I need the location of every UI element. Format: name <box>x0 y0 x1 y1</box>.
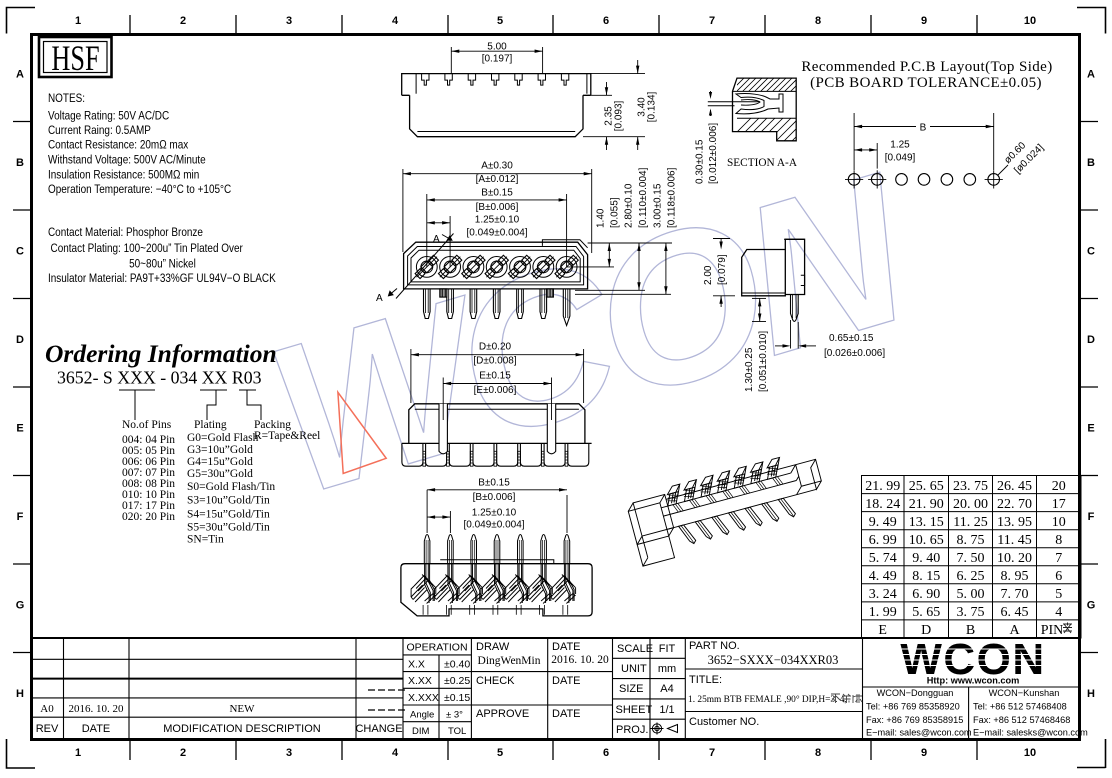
svg-text:S0=Gold Flash/Tin: S0=Gold Flash/Tin <box>187 481 275 493</box>
inner walls <box>408 247 584 285</box>
svg-text:4: 4 <box>1055 605 1062 620</box>
svg-text:9. 49: 9. 49 <box>869 515 897 530</box>
svg-text:2016. 10. 20: 2016. 10. 20 <box>551 654 609 666</box>
svg-text:±0.15: ±0.15 <box>444 692 470 704</box>
svg-text:D: D <box>16 334 24 346</box>
svg-text:Fax: +86 769 85358915: Fax: +86 769 85358915 <box>866 715 963 725</box>
svg-text:6. 99: 6. 99 <box>869 533 897 548</box>
hatch top band <box>730 78 804 92</box>
svg-text:[0.012±0.006]: [0.012±0.006] <box>708 123 719 184</box>
svg-text:Fax: +86 512 57468468: Fax: +86 512 57468468 <box>973 715 1070 725</box>
svg-text:[0.049±0.004]: [0.049±0.004] <box>463 520 524 531</box>
svg-text:6. 90: 6. 90 <box>912 587 940 602</box>
svg-text:1.30±0.25: 1.30±0.25 <box>744 347 755 392</box>
svg-text:E±0.15: E±0.15 <box>479 371 511 382</box>
svg-text:5.00: 5.00 <box>487 42 507 53</box>
svg-text:5. 74: 5. 74 <box>869 551 897 566</box>
svg-text:DATE: DATE <box>82 723 111 735</box>
svg-text:B±0.15: B±0.15 <box>478 478 510 489</box>
svg-text:2: 2 <box>180 747 186 759</box>
svg-text:E−mail: sales@wcon.com: E−mail: sales@wcon.com <box>866 728 972 738</box>
svg-text:8. 75: 8. 75 <box>957 533 985 548</box>
svg-text:PART NO.: PART NO. <box>689 640 740 652</box>
dim 0.30 arrows <box>709 91 712 116</box>
dim A <box>403 169 592 253</box>
svg-text:S3=10u”Gold/Tin: S3=10u”Gold/Tin <box>187 495 270 507</box>
svg-text:7. 70: 7. 70 <box>1001 587 1029 602</box>
svg-text:±0.25: ±0.25 <box>444 675 470 687</box>
svg-text:8. 95: 8. 95 <box>1001 569 1029 584</box>
svg-text:[0.134]: [0.134] <box>647 91 658 122</box>
svg-text:23. 75: 23. 75 <box>953 479 988 494</box>
svg-text:8: 8 <box>1055 533 1062 548</box>
svg-text:F: F <box>1088 511 1095 523</box>
svg-text:DATE: DATE <box>552 641 581 653</box>
svg-text:SN=Tin: SN=Tin <box>187 534 224 546</box>
dim 2.00 <box>713 239 735 308</box>
svg-text:8: 8 <box>815 15 821 27</box>
svg-text:B: B <box>16 157 24 169</box>
svg-text:Voltage Rating: 50V AC/DC: Voltage Rating: 50V AC/DC <box>48 110 169 123</box>
svg-text:Contact Material: Phosphor: Contact Material: Phosphor Bronze <box>48 226 203 239</box>
svg-text:SIZE: SIZE <box>619 683 643 695</box>
svg-text:[0.049±0.004]: [0.049±0.004] <box>466 228 527 239</box>
svg-text:Contact Plating: 100~200u”: Contact Plating: 100~200u” Tin Plated Ov… <box>51 242 244 255</box>
svg-text:1: 1 <box>75 747 81 759</box>
svg-text:A: A <box>433 234 440 245</box>
top band outline <box>402 74 591 96</box>
revision table <box>32 638 1081 739</box>
svg-text:3652- S XXX - 034 XX R03: 3652- S XXX - 034 XX R03 <box>57 368 262 388</box>
svg-text:[0.093]: [0.093] <box>614 100 625 131</box>
operation tolerance table <box>438 655 440 738</box>
svg-text:A4: A4 <box>660 683 673 695</box>
svg-text:22. 70: 22. 70 <box>997 497 1032 512</box>
svg-text:H: H <box>1087 688 1095 700</box>
svg-text:S4=15u”Gold/Tin: S4=15u”Gold/Tin <box>187 509 270 521</box>
svg-text:1.25±0.10: 1.25±0.10 <box>472 507 517 518</box>
svg-text:[A±0.012]: [A±0.012] <box>476 174 519 185</box>
svg-text:7: 7 <box>709 15 715 27</box>
svg-text:10: 10 <box>1052 515 1066 530</box>
bottom tabs row <box>402 443 589 466</box>
svg-text:G: G <box>1087 600 1096 612</box>
svg-text:[E±0.006]: [E±0.006] <box>474 385 517 396</box>
svg-text:D±0.20: D±0.20 <box>479 342 512 353</box>
svg-text:S5=30u”Gold/Tin: S5=30u”Gold/Tin <box>187 521 270 533</box>
wcon addresses <box>866 688 1088 738</box>
dim E <box>443 378 551 421</box>
svg-text:mm: mm <box>658 663 676 675</box>
revision table texts <box>36 723 403 735</box>
svg-text:E−mail: salesks@wcon.com: E−mail: salesks@wcon.com <box>973 728 1088 738</box>
zone numbers top <box>75 15 1036 27</box>
svg-text:B: B <box>1087 157 1095 169</box>
svg-text:[0.049]: [0.049] <box>885 153 916 164</box>
top lip step <box>542 240 587 248</box>
section line A-A <box>396 234 454 299</box>
svg-text:13. 15: 13. 15 <box>909 515 944 530</box>
svg-text:Insulation Resistance: 500MΩ: Insulation Resistance: 500MΩ min <box>48 169 199 182</box>
dim 0.65 <box>775 320 816 349</box>
body <box>409 404 585 444</box>
operation table texts <box>406 642 470 738</box>
svg-text:WCON−Kunshan: WCON−Kunshan <box>989 688 1060 698</box>
svg-text:10. 20: 10. 20 <box>997 551 1032 566</box>
right-side dims 1.40 / 2.80 / 3.00 <box>567 243 672 294</box>
svg-text:1.40: 1.40 <box>596 208 607 228</box>
plating callout bracket <box>200 390 227 420</box>
svg-text:R=Tape&Reel: R=Tape&Reel <box>254 430 320 442</box>
svg-text:Customer NO.: Customer NO. <box>689 716 759 728</box>
svg-text:0.30±0.15: 0.30±0.15 <box>695 139 706 184</box>
change dashes <box>368 690 405 710</box>
dim 5.00 <box>451 47 542 73</box>
svg-text:7. 50: 7. 50 <box>957 551 985 566</box>
svg-text:[0.197]: [0.197] <box>482 54 513 65</box>
body <box>401 564 592 616</box>
svg-text:E: E <box>878 623 887 638</box>
svg-text:6: 6 <box>1055 569 1062 584</box>
svg-text:TOL: TOL <box>448 726 466 737</box>
part no / title / customer <box>862 638 864 739</box>
svg-text:10. 65: 10. 65 <box>909 533 944 548</box>
z-contacts <box>411 564 576 615</box>
svg-text:25. 65: 25. 65 <box>909 479 944 494</box>
svg-text:7: 7 <box>1055 551 1062 566</box>
svg-text:(PCB BOARD TOLERANCE±0.05): (PCB BOARD TOLERANCE±0.05) <box>810 75 1042 91</box>
svg-text:A±0.30: A±0.30 <box>481 161 513 172</box>
svg-text:0.65±0.15: 0.65±0.15 <box>829 333 874 344</box>
svg-text:10: 10 <box>1024 747 1036 759</box>
svg-text:G5=30u”Gold: G5=30u”Gold <box>187 468 253 480</box>
svg-text:[0.118±0.006]: [0.118±0.006] <box>667 167 678 228</box>
svg-text:21. 90: 21. 90 <box>909 497 944 512</box>
body <box>742 250 786 296</box>
svg-text:1. 99: 1. 99 <box>869 605 897 620</box>
left ticks <box>13 122 31 653</box>
svg-text:2016. 10. 20: 2016. 10. 20 <box>69 703 125 715</box>
svg-text:Insulator Material: PA9T+33%: Insulator Material: PA9T+33%GF UL94V−O B… <box>48 272 276 285</box>
draw/check/approve <box>476 641 581 720</box>
svg-text:2: 2 <box>180 15 186 27</box>
svg-text:3652−SXXX−034XXR03: 3652−SXXX−034XXR03 <box>708 653 839 667</box>
svg-text:G4=15u”Gold: G4=15u”Gold <box>187 456 253 468</box>
svg-text:[D±0.008]: [D±0.008] <box>473 356 517 367</box>
svg-text:TITLE:: TITLE: <box>689 674 722 686</box>
svg-text:11. 25: 11. 25 <box>953 515 987 530</box>
crosshairs on 1,2,7 <box>845 170 1003 188</box>
svg-text:5: 5 <box>497 15 503 27</box>
svg-text:17: 17 <box>1052 497 1066 512</box>
svg-text:G: G <box>16 600 25 612</box>
svg-text:6. 25: 6. 25 <box>957 569 985 584</box>
svg-text:X.X: X.X <box>408 659 425 671</box>
dim 1.25 <box>854 143 877 169</box>
svg-text:10: 10 <box>1024 15 1036 27</box>
svg-text:X.XXX: X.XXX <box>408 692 439 704</box>
band inner verticals <box>415 74 417 94</box>
dim B <box>427 488 567 533</box>
svg-text:5: 5 <box>1055 587 1062 602</box>
dim B <box>427 194 567 267</box>
svg-text:Current Raing: 0.5AMP: Current Raing: 0.5AMP <box>48 124 151 137</box>
mating pin entering left <box>708 101 760 103</box>
svg-text:E: E <box>1087 423 1094 435</box>
contacts: 7 circles with diagonal chip chains <box>416 257 577 278</box>
bottom ticks <box>130 741 977 760</box>
pin <box>791 295 799 322</box>
svg-text:A: A <box>16 69 24 81</box>
svg-text:21. 99: 21. 99 <box>865 479 900 494</box>
svg-text:26. 45: 26. 45 <box>997 479 1032 494</box>
svg-text:9: 9 <box>921 747 927 759</box>
svg-text:2.00: 2.00 <box>703 265 714 285</box>
dim 2.35 / 3.40 <box>583 60 645 150</box>
outline <box>733 78 797 141</box>
svg-text:B: B <box>920 123 927 134</box>
svg-text:[0.110±0.004]: [0.110±0.004] <box>638 167 649 228</box>
svg-text:Operation Temperature: −40°C: Operation Temperature: −40°C to +105°C <box>48 183 231 196</box>
svg-text:REV: REV <box>36 723 59 735</box>
svg-text:3: 3 <box>286 15 292 27</box>
packing callout bracket <box>239 390 261 420</box>
svg-text:FIT: FIT <box>659 643 676 655</box>
scale/unit/size/sheet/proj <box>649 638 651 739</box>
svg-text:50~80u” Nickel: 50~80u” Nickel <box>129 258 196 271</box>
svg-text:20. 00: 20. 00 <box>953 497 988 512</box>
dim 1.25 <box>427 216 450 267</box>
svg-text:[B±0.006]: [B±0.006] <box>473 492 516 503</box>
hatch bottom band <box>728 117 816 141</box>
projection symbol <box>651 723 678 735</box>
dim 1.25 <box>427 511 450 533</box>
svg-text:SHEET: SHEET <box>616 704 653 716</box>
svg-text:DingWenMin: DingWenMin <box>478 655 541 667</box>
svg-text:UNIT: UNIT <box>621 663 647 675</box>
svg-text:[0.026±0.006]: [0.026±0.006] <box>824 348 885 359</box>
part no/title/customer <box>689 640 759 728</box>
svg-text:[0.079]: [0.079] <box>717 254 728 285</box>
needles <box>424 535 569 564</box>
svg-text:A: A <box>1087 69 1095 81</box>
svg-text:B±0.15: B±0.15 <box>481 187 513 198</box>
svg-text:A: A <box>376 293 383 304</box>
svg-text:5. 00: 5. 00 <box>957 587 985 602</box>
svg-text:D: D <box>1087 334 1095 346</box>
svg-text:5. 65: 5. 65 <box>912 605 940 620</box>
svg-text:HSF: HSF <box>51 38 99 78</box>
svg-text:11. 45: 11. 45 <box>997 533 1031 548</box>
contact funnel <box>736 94 783 114</box>
7 holes <box>848 174 860 186</box>
svg-text:3.00±0.15: 3.00±0.15 <box>653 183 664 228</box>
watermark red triangle <box>338 392 386 473</box>
svg-text:9: 9 <box>921 15 927 27</box>
svg-text:DRAW: DRAW <box>476 641 510 653</box>
svg-text:F: F <box>17 511 24 523</box>
svg-text:Ordering Information: Ordering Information <box>45 339 277 368</box>
svg-text:± 3°: ± 3° <box>446 710 463 721</box>
dim B <box>854 113 994 170</box>
svg-text:3: 3 <box>286 747 292 759</box>
svg-text:E: E <box>16 423 23 435</box>
svg-text:Angle: Angle <box>410 710 434 721</box>
dia label <box>998 165 1008 175</box>
svg-text:8. 15: 8. 15 <box>912 569 940 584</box>
svg-text:18. 24: 18. 24 <box>865 497 900 512</box>
outer body outline <box>404 242 588 289</box>
right ticks <box>1080 122 1098 653</box>
corner marks <box>7 8 36 34</box>
svg-text:[B±0.006]: [B±0.006] <box>476 202 519 213</box>
svg-text:SCALE: SCALE <box>617 643 653 655</box>
zone letters left/right <box>16 69 1096 701</box>
svg-text:MODIFICATION DESCRIPTION: MODIFICATION DESCRIPTION <box>163 723 321 735</box>
svg-text:G3=10u”Gold: G3=10u”Gold <box>187 444 253 456</box>
svg-text:4: 4 <box>392 747 399 759</box>
svg-text:[0.051±0.010]: [0.051±0.010] <box>758 331 769 392</box>
svg-text:6: 6 <box>603 747 609 759</box>
dim 1.30 <box>752 298 766 321</box>
svg-text:DATE: DATE <box>552 675 581 687</box>
hanzi shu (count) <box>1063 623 1072 634</box>
svg-text:4: 4 <box>392 15 399 27</box>
svg-text:Tel: +86 769 85358920: Tel: +86 769 85358920 <box>866 702 960 712</box>
svg-text:Tel: +86 512 57468408: Tel: +86 512 57468408 <box>973 702 1067 712</box>
top ticks <box>130 15 977 33</box>
svg-text:WCON−Dongguan: WCON−Dongguan <box>877 688 954 698</box>
svg-text:X.XX: X.XX <box>408 675 432 687</box>
zone numbers bottom <box>75 747 1036 759</box>
HSF logo box <box>39 37 112 78</box>
svg-text:1. 25mm BTB FEMALE ,90° DI: 1. 25mm BTB FEMALE ,90° DIP,H=3. 4, <box>688 694 847 705</box>
svg-text:CHECK: CHECK <box>476 675 515 687</box>
svg-text:G0=Gold Flash: G0=Gold Flash <box>187 432 259 444</box>
no-of-pins callout bracket <box>119 390 155 420</box>
svg-text:NEW: NEW <box>229 703 255 715</box>
svg-text:13. 95: 13. 95 <box>997 515 1032 530</box>
svg-text:DIM: DIM <box>412 726 430 737</box>
svg-text:7: 7 <box>709 747 715 759</box>
svg-text:C: C <box>1087 246 1095 258</box>
svg-text:H: H <box>16 688 24 700</box>
svg-text:3. 75: 3. 75 <box>957 605 985 620</box>
svg-text:2.80±0.10: 2.80±0.10 <box>624 183 635 228</box>
svg-text:Contact Resistance: 20mΩ ma: Contact Resistance: 20mΩ max <box>48 139 189 152</box>
svg-text:9. 40: 9. 40 <box>912 551 940 566</box>
7 slots on top edge <box>422 74 569 86</box>
svg-text:[0.055]: [0.055] <box>610 197 621 228</box>
svg-text:1/1: 1/1 <box>659 704 674 716</box>
svg-text:8: 8 <box>815 747 821 759</box>
svg-text:Plating: Plating <box>194 419 227 431</box>
svg-text:NOTES:: NOTES: <box>48 92 85 105</box>
svg-text:±0.40: ±0.40 <box>444 659 470 671</box>
svg-text:1: 1 <box>75 15 81 27</box>
WCON logo <box>900 635 1045 686</box>
lower body <box>402 95 591 136</box>
svg-text:A0: A0 <box>40 703 54 715</box>
svg-text:PROJ.: PROJ. <box>616 724 648 736</box>
svg-text:Recommended P.C.B Layout(Top S: Recommended P.C.B Layout(Top Side) <box>801 59 1052 75</box>
two posts <box>439 404 447 454</box>
svg-text:5: 5 <box>497 747 503 759</box>
svg-text:C: C <box>16 246 24 258</box>
svg-text:6. 45: 6. 45 <box>1001 605 1029 620</box>
svg-text:No.of Pins: No.of Pins <box>122 419 172 431</box>
svg-text:020: 20 Pin: 020: 20 Pin <box>122 511 175 523</box>
svg-text:OPERATION: OPERATION <box>406 642 467 654</box>
svg-text:4. 49: 4. 49 <box>869 569 897 584</box>
svg-text:Withstand Voltage: 500V AC/: Withstand Voltage: 500V AC/Minute <box>48 154 206 167</box>
svg-text:SECTION A-A: SECTION A-A <box>727 157 798 169</box>
svg-text:1.25±0.10: 1.25±0.10 <box>475 214 520 225</box>
svg-text:APPROVE: APPROVE <box>476 708 529 720</box>
draw/check/approve <box>547 638 549 739</box>
wcon block <box>863 686 1081 688</box>
scale block <box>616 643 677 736</box>
svg-text:1.25: 1.25 <box>890 140 910 151</box>
svg-text:20: 20 <box>1052 479 1066 494</box>
hanzi: bu dai zhu <box>831 694 862 703</box>
legs <box>424 289 570 326</box>
band divisions <box>733 90 797 92</box>
svg-text:6: 6 <box>603 15 609 27</box>
svg-text:3. 24: 3. 24 <box>869 587 897 602</box>
dim D <box>411 349 584 403</box>
svg-text:DATE: DATE <box>552 708 581 720</box>
svg-text:CHANGE: CHANGE <box>355 723 402 735</box>
